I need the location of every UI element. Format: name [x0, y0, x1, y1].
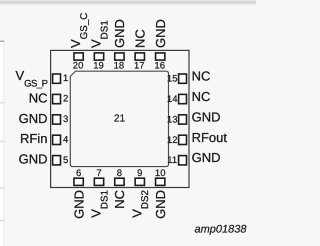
pin 3 pad — [53, 115, 61, 124]
svg-text:17: 17 — [134, 61, 145, 72]
svg-text:21: 21 — [114, 114, 126, 125]
pin 12 pad — [179, 135, 187, 144]
decorative left table edge — [0, 41, 4, 246]
pin 19 pad — [94, 53, 103, 60]
pin 18 pad — [115, 53, 124, 60]
svg-text:18: 18 — [114, 61, 125, 72]
svg-text:GND: GND — [19, 111, 48, 126]
svg-text:amp01838: amp01838 — [195, 224, 248, 236]
svg-text:3: 3 — [63, 114, 68, 125]
svg-text:NC: NC — [192, 89, 211, 104]
package outline U1 — [51, 50, 189, 187]
pin 20 pad — [74, 53, 83, 60]
svg-text:GND: GND — [153, 19, 168, 48]
svg-text:6: 6 — [76, 168, 81, 179]
pin 4 pad — [53, 135, 61, 144]
pin 10 pad — [156, 178, 165, 185]
svg-text:GND: GND — [153, 190, 168, 219]
svg-text:19: 19 — [93, 61, 104, 72]
svg-text:11: 11 — [167, 155, 177, 166]
body with pin-1 chamfer (exposed pad boundary) — [70, 71, 168, 166]
svg-text:NC: NC — [112, 190, 127, 209]
svg-text:1: 1 — [63, 73, 68, 84]
svg-text:10: 10 — [155, 168, 166, 179]
svg-text:GND: GND — [19, 152, 48, 167]
pin 7 pad — [94, 178, 103, 185]
svg-text:GND: GND — [192, 150, 221, 165]
svg-text:15: 15 — [167, 74, 178, 85]
svg-text:13: 13 — [167, 114, 178, 125]
svg-text:16: 16 — [154, 61, 165, 72]
svg-text:20: 20 — [73, 61, 84, 72]
pin 1 pad — [53, 74, 61, 83]
pin 5 pad — [53, 156, 61, 165]
svg-text:NC: NC — [192, 69, 211, 84]
svg-text:8: 8 — [117, 168, 122, 179]
svg-text:14: 14 — [167, 94, 178, 105]
pin 15 pad — [179, 74, 187, 83]
svg-text:NC: NC — [29, 90, 48, 105]
pin 9 pad — [135, 178, 144, 185]
svg-text:RFin: RFin — [20, 131, 47, 146]
pin 2 pad — [53, 94, 61, 103]
pin 13 pad — [179, 115, 187, 124]
pin 14 pad — [179, 94, 187, 103]
pin 11 pad — [179, 156, 187, 165]
pin 17 pad — [135, 53, 144, 60]
pin 6 pad — [74, 178, 83, 185]
svg-text:GND: GND — [71, 190, 86, 219]
svg-text:GND: GND — [112, 19, 127, 48]
pin 16 pad — [156, 53, 165, 60]
svg-text:NC: NC — [133, 29, 148, 48]
svg-text:9: 9 — [137, 168, 142, 179]
svg-text:RFout: RFout — [192, 130, 228, 145]
svg-text:4: 4 — [63, 134, 68, 145]
svg-text:7: 7 — [96, 168, 101, 179]
svg-text:5: 5 — [63, 155, 68, 166]
svg-text:2: 2 — [63, 94, 68, 105]
svg-text:12: 12 — [167, 135, 178, 146]
pin 8 pad — [115, 178, 124, 185]
svg-text:GND: GND — [192, 109, 221, 124]
decorative top band — [0, 0, 256, 5]
